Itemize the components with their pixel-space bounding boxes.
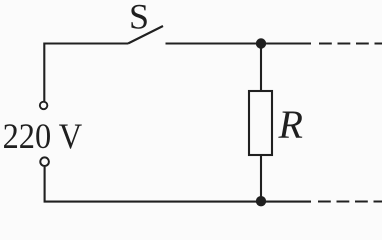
svg-text:220 V: 220 V <box>3 116 83 156</box>
svg-text:R: R <box>278 102 303 147</box>
svg-text:S: S <box>129 0 149 36</box>
